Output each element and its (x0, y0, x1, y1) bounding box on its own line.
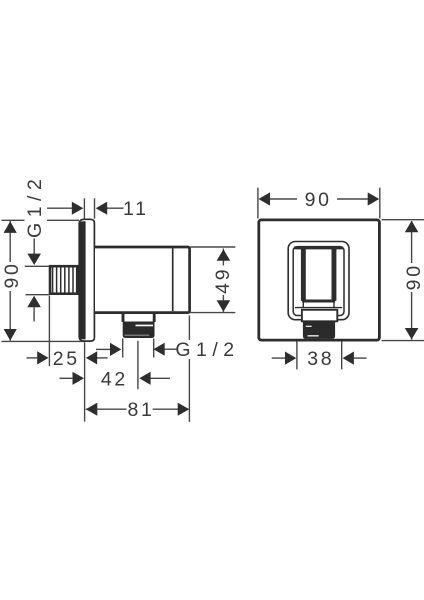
svg-text:90: 90 (403, 263, 424, 290)
svg-text:G1/2: G1/2 (24, 174, 46, 238)
svg-text:90: 90 (1, 261, 23, 288)
svg-text:25: 25 (53, 348, 80, 370)
svg-text:42: 42 (101, 368, 128, 390)
svg-text:11: 11 (123, 198, 149, 220)
svg-text:49: 49 (212, 267, 234, 294)
svg-text:90: 90 (305, 189, 332, 211)
svg-text:G1/2: G1/2 (175, 339, 239, 361)
svg-text:38: 38 (307, 348, 334, 370)
svg-text:81: 81 (127, 399, 154, 421)
